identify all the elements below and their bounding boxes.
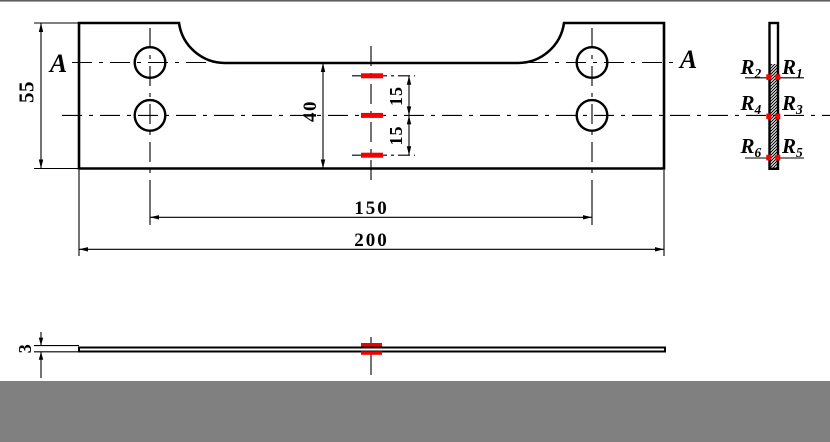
svg-text:150: 150 xyxy=(354,198,389,219)
hole lower-left xyxy=(135,100,166,131)
section outline xyxy=(770,23,779,169)
gauge extension dash-dot top xyxy=(352,75,415,77)
dim 15 upper: dimension line xyxy=(408,76,410,116)
dim 200: dimension line xyxy=(79,248,664,250)
red gauge dot R1 xyxy=(775,74,780,80)
red gauge dot R5 xyxy=(775,155,780,161)
svg-text:3: 3 xyxy=(15,344,35,353)
svg-text:40: 40 xyxy=(300,100,321,122)
strain gauge red mark middle xyxy=(361,113,383,118)
svg-text:200: 200 xyxy=(354,230,389,251)
leader underline R1 xyxy=(779,77,804,79)
svg-text:15: 15 xyxy=(386,126,406,146)
centerline central vertical x=371 xyxy=(370,46,372,180)
red gauge bottom surface xyxy=(361,351,382,355)
top border line xyxy=(0,0,830,2)
red gauge top surface xyxy=(361,343,382,347)
strain gauge red mark top xyxy=(361,73,383,78)
dim 150: dimension line xyxy=(150,216,592,218)
red gauge dot R2 xyxy=(766,74,771,80)
side view centerline xyxy=(370,337,372,375)
dim 55: dimension line xyxy=(40,23,42,169)
centerline left holes vertical x=150 xyxy=(149,28,151,196)
svg-text:A: A xyxy=(678,45,697,74)
leader underline R5 xyxy=(779,157,804,159)
section hatch xyxy=(764,46,784,189)
leader underline R6 xyxy=(745,157,769,159)
dim 3: dimension line with outside arrows xyxy=(40,332,42,346)
dim 15 lower: dimension line xyxy=(408,115,410,155)
bottom gray band xyxy=(0,381,830,442)
red gauge dot R6 xyxy=(766,155,771,161)
dim 3: extension lines xyxy=(34,345,79,347)
centerline A-A horizontal y=62.5 xyxy=(72,62,674,64)
svg-text:A: A xyxy=(48,49,67,78)
hole upper-left xyxy=(135,47,166,78)
red gauge dot R4 xyxy=(766,114,771,120)
centerline middle horizontal y=115.5 xyxy=(62,114,830,116)
svg-text:55: 55 xyxy=(15,81,39,103)
svg-text:15: 15 xyxy=(386,86,406,106)
dim 40: dimension line xyxy=(322,63,324,169)
leader underline R2 xyxy=(745,77,769,79)
hole lower-right xyxy=(577,100,608,131)
plate outline xyxy=(79,23,664,169)
hole upper-right xyxy=(577,47,608,78)
dim 55: extension lines xyxy=(34,22,78,24)
side view plate bar xyxy=(79,348,665,352)
dim 200: extension lines xyxy=(78,170,80,256)
red gauge dot R3 xyxy=(775,114,780,120)
gauge extension dash-dot bottom xyxy=(352,154,415,156)
strain gauge red mark bottom xyxy=(361,153,383,158)
centerline right holes vertical x=592 xyxy=(591,28,593,196)
